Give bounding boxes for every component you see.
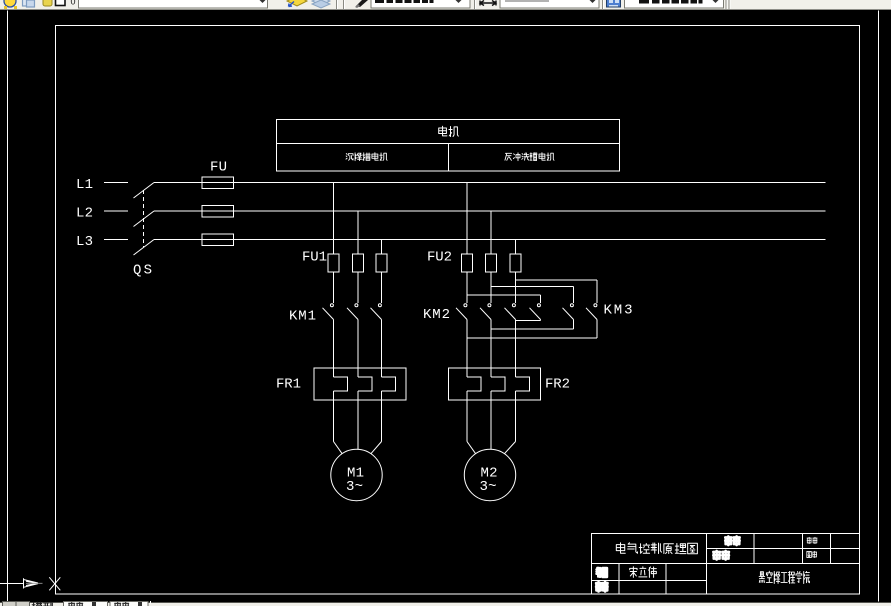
svg-text:0: 0	[71, 0, 76, 7]
svg-text:L2: L2	[76, 206, 93, 222]
svg-text:L1: L1	[76, 177, 93, 193]
svg-text:KM3: KM3	[604, 303, 633, 319]
svg-text:L3: L3	[76, 234, 93, 250]
svg-text:FR2: FR2	[545, 377, 570, 393]
svg-text:3~: 3~	[346, 479, 363, 495]
svg-text:FU2: FU2	[427, 250, 452, 266]
svg-text:FU: FU	[210, 160, 227, 176]
svg-text:KM2: KM2	[423, 307, 450, 323]
svg-text:FU1: FU1	[302, 250, 327, 266]
svg-text:3~: 3~	[480, 479, 497, 495]
svg-text:KM1: KM1	[289, 309, 316, 325]
svg-text:FR1: FR1	[276, 377, 301, 393]
